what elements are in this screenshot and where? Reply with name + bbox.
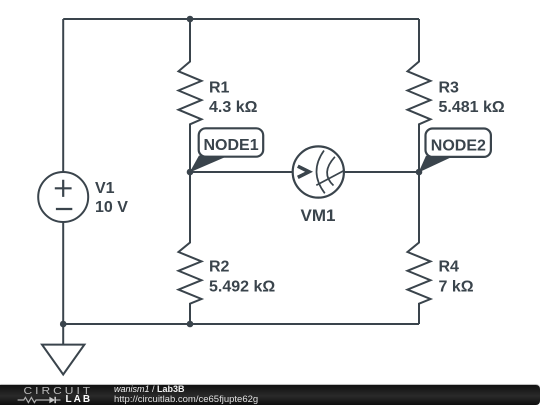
junction dot NODE1 <box>187 169 194 176</box>
wire left vertical top (V1 to top rail) <box>62 19 64 172</box>
svg-text:5.492 kΩ: 5.492 kΩ <box>209 278 275 295</box>
junction dot NODE2 <box>416 169 423 176</box>
junction dot bottom middle <box>187 321 194 328</box>
label R3 value <box>439 79 505 115</box>
svg-text:5.481 kΩ: 5.481 kΩ <box>439 99 505 116</box>
node NODE2 flag <box>419 129 491 173</box>
svg-text:R3: R3 <box>439 79 460 96</box>
resistor R4 <box>408 172 431 324</box>
resistor R1 <box>179 19 202 172</box>
footer text url <box>114 395 258 405</box>
resistor R3 <box>408 19 431 172</box>
svg-text:R1: R1 <box>209 79 230 96</box>
svg-text:VM1: VM1 <box>301 206 336 225</box>
label R2 value <box>209 258 275 295</box>
svg-text:R4: R4 <box>439 258 460 275</box>
footer text title <box>114 384 185 394</box>
wire middle right (VM1 to NODE2) <box>344 171 419 173</box>
svg-text:NODE1: NODE1 <box>204 137 259 154</box>
voltmeter VM1 <box>293 146 345 197</box>
svg-text:LAB: LAB <box>66 394 93 405</box>
ground <box>42 324 84 375</box>
voltage source V1 <box>38 172 88 222</box>
svg-text:NODE2: NODE2 <box>431 138 486 155</box>
label V1 value <box>95 180 128 216</box>
node NODE1 flag <box>190 128 264 172</box>
footer bar <box>0 385 540 405</box>
label R4 value <box>439 258 474 295</box>
wire left vertical bottom (V1 to bottom rail) <box>62 222 64 324</box>
resistor R2 <box>179 172 202 324</box>
svg-text:10 V: 10 V <box>95 199 128 216</box>
svg-text:4.3 kΩ: 4.3 kΩ <box>209 99 258 116</box>
svg-text:7 kΩ: 7 kΩ <box>439 278 474 295</box>
svg-text:R2: R2 <box>209 258 230 275</box>
junction dot top rail <box>187 16 194 23</box>
svg-text:V1: V1 <box>95 180 115 197</box>
junction dot bottom left (ground) <box>60 321 67 328</box>
wire bottom horizontal <box>63 323 419 325</box>
CircuitLab logo <box>0 384 110 405</box>
label R1 value <box>209 79 258 115</box>
wire middle left (NODE1 to VM1) <box>190 171 293 173</box>
wire top horizontal <box>63 18 419 20</box>
